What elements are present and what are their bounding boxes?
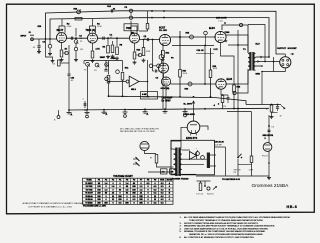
junction feedback takeoff: [268, 56, 270, 58]
svg-text:HB-6: HB-6: [287, 205, 298, 209]
svg-text:6.3: 6.3: [272, 127, 275, 129]
svg-text:V6 EL84: V6 EL84: [85, 198, 93, 201]
ground cathode branch: [52, 59, 54, 61]
enclosure box power supply: [171, 140, 215, 175]
svg-text:TO HEATERS 6.3V: TO HEATERS 6.3V: [222, 178, 241, 181]
tube V4b middle triode: [159, 63, 169, 73]
svg-text:6CG7(B): 6CG7(B): [161, 88, 170, 90]
capacitor C20 can on B+ wire: [239, 23, 242, 26]
arrow tap 1: [261, 56, 263, 58]
ground pilot: [268, 176, 270, 178]
wire bias branch: [197, 180, 211, 182]
wire R18 to bus: [233, 92, 235, 109]
svg-text:EZ81 5Y3: EZ81 5Y3: [186, 137, 198, 140]
resistor R14 cathode V4: [162, 44, 164, 50]
junction lower drive: [204, 83, 206, 85]
svg-text:SOCKET: SOCKET: [288, 48, 298, 50]
tube V6 6BQ5 lower: [216, 79, 226, 89]
svg-text:0: 0: [147, 186, 148, 188]
svg-text:P3: P3: [112, 180, 114, 182]
svg-text:B+ 360V: B+ 360V: [184, 104, 193, 106]
filter capacitor C20b: [201, 156, 205, 160]
arrow tap 2: [258, 61, 260, 63]
svg-text:ALL CONTROLS AT MINIMUM, PROPE: ALL CONTROLS AT MINIMUM, PROPER OUTPUT L…: [184, 236, 255, 239]
svg-text:OUTPUT: OUTPUT: [277, 48, 287, 50]
svg-text:1.6: 1.6: [112, 186, 115, 188]
fuse F1: [155, 155, 158, 164]
svg-text:BRN: BRN: [256, 74, 261, 76]
svg-text:6EU7: 6EU7: [57, 28, 64, 32]
svg-text:0: 0: [126, 199, 127, 201]
svg-text:0: 0: [147, 189, 148, 191]
svg-text:PILOT: PILOT: [262, 156, 269, 158]
ground R1: [49, 52, 51, 54]
svg-text:100K: 100K: [213, 68, 218, 70]
svg-text:MEASURED VALUES ARE FROM SOCKE: MEASURED VALUES ARE FROM SOCKET TERMINAL…: [184, 225, 275, 228]
svg-text:SEE NOTE: SEE NOTE: [216, 18, 227, 20]
junction nested tap: [264, 61, 266, 63]
resistor R26 on feedback wire: [75, 17, 82, 20]
svg-text:6.3: 6.3: [154, 202, 157, 204]
svg-text:0: 0: [147, 202, 148, 204]
resistor R16 grid stop lower: [188, 82, 192, 86]
svg-text:6.3: 6.3: [161, 183, 164, 185]
wire rectifier plate feed: [181, 127, 187, 148]
svg-text:6.3: 6.3: [154, 193, 157, 195]
arrow socket aux: [291, 53, 294, 55]
svg-text:V5 EL84: V5 EL84: [85, 195, 93, 198]
tube V4 6C4 upper: [159, 34, 170, 45]
wire V4b cathode: [165, 86, 167, 109]
wire AC plug to fuse: [145, 151, 157, 154]
ground volume pot: [75, 58, 77, 60]
output transformer T2 secondary: [253, 54, 255, 58]
svg-text:A RADIOCRAFT STANDARD NOTATION: A RADIOCRAFT STANDARD NOTATION SCHEMATIC…: [23, 202, 84, 205]
wire screen V5: [237, 30, 239, 45]
svg-text:REPLACE 8MF SECTION OF C20 FIR: REPLACE 8MF SECTION OF C20 FIRST.: [120, 130, 156, 133]
resistor R12 cathode V3: [134, 43, 136, 52]
svg-text:V2 7025: V2 7025: [86, 186, 93, 188]
junction top wires: [151, 10, 153, 12]
svg-text:6.3: 6.3: [161, 193, 164, 195]
pot P2 bass: [86, 62, 90, 66]
svg-text:0: 0: [126, 196, 127, 198]
wire grid drop to lower triode: [152, 40, 154, 72]
wire socket ground return: [262, 68, 285, 105]
resistor R19 cathode: [221, 95, 224, 103]
wire screen drop: [179, 37, 181, 46]
svg-text:A: A: [71, 114, 73, 117]
svg-text:P9: P9: [154, 180, 156, 182]
wire lamp column: [147, 60, 149, 96]
wire network top rail: [246, 104, 281, 106]
resistor R17 plate load upper: [179, 31, 181, 70]
svg-text:0: 0: [119, 183, 120, 185]
svg-text:2.7K: 2.7K: [96, 49, 101, 51]
svg-text:310: 310: [118, 196, 121, 198]
junction ground bus: [164, 108, 166, 110]
ground V3 cathode: [134, 61, 136, 63]
svg-text:P6: P6: [133, 180, 135, 182]
svg-text:POWER TRANS: POWER TRANS: [172, 178, 189, 181]
svg-text:330: 330: [97, 196, 100, 198]
junction ground bus: [233, 108, 235, 110]
capacitor C6 tone: [105, 61, 107, 70]
svg-text:22: 22: [112, 193, 114, 195]
capacitor C13 left column: [68, 45, 70, 110]
capacitor C16 pilot: [268, 129, 271, 131]
svg-text:6.3: 6.3: [154, 189, 157, 191]
svg-text:0: 0: [105, 186, 106, 188]
svg-text:6.3: 6.3: [119, 202, 122, 204]
label V3 7025 boxed: [124, 24, 138, 31]
wire grid link lower: [196, 53, 214, 55]
pot P6 balance: [159, 55, 164, 60]
capacitor C3 coupling: [70, 37, 72, 40]
capacitor C23 splitter: [157, 64, 161, 68]
pilot lamp PL1: [263, 143, 272, 152]
svg-text:6.3: 6.3: [133, 196, 136, 198]
wire V4b plate to lower output grid: [171, 83, 217, 85]
svg-text:6.3: 6.3: [161, 199, 164, 201]
wire supply rail right: [215, 146, 226, 148]
wire nested tap: [248, 25, 265, 62]
wire cathode branch: [46, 39, 53, 59]
wire choke connections: [204, 158, 207, 160]
pot P8 tone lower: [105, 77, 109, 81]
ground V2 cathode: [92, 59, 94, 61]
svg-text:C20 40-40: C20 40-40: [214, 141, 225, 144]
svg-text:0: 0: [147, 199, 148, 201]
wire V5 cathode: [221, 43, 235, 85]
svg-text:170: 170: [97, 186, 100, 188]
wire input to V1 grid: [33, 38, 57, 40]
svg-text:270: 270: [223, 106, 226, 108]
capacitor C1 input: [38, 39, 40, 45]
svg-text:0: 0: [154, 183, 155, 185]
wire fuse to transformer: [157, 163, 172, 167]
wire socket top stub: [284, 54, 286, 57]
junction ground bus: [68, 109, 70, 111]
svg-text:EL84: EL84: [209, 27, 215, 30]
junction bias: [204, 185, 206, 187]
input jack J1: [30, 34, 34, 36]
ground network: [271, 115, 273, 117]
svg-text:TUBE SOCKET TERMINALS TO CHASS: TUBE SOCKET TERMINALS TO CHASSIS BASE AN…: [189, 219, 263, 222]
svg-text:0: 0: [105, 196, 106, 198]
ground bus stub 6: [164, 109, 166, 111]
ground bus stub 2: [86, 110, 88, 113]
junction ground bus: [86, 109, 88, 111]
wire V3 plate stubs: [130, 21, 132, 35]
svg-text:0: 0: [112, 189, 113, 191]
svg-text:25MF: 25MF: [100, 57, 106, 59]
svg-text:7189: 7189: [225, 32, 231, 34]
wire primary bottom return: [237, 71, 249, 94]
wire network to ground: [271, 112, 273, 115]
tube V1 6EU7: [57, 33, 67, 43]
wire HV secondary bottom: [182, 173, 196, 175]
svg-text:ALL VOLTAGE MEASUREMENTS ARE A: ALL VOLTAGE MEASUREMENTS ARE AT DC-20,00…: [184, 216, 290, 219]
wire pilot to heater run: [268, 152, 270, 177]
svg-text:350: 350: [104, 202, 107, 204]
capacitor C2 cathode bypass: [65, 51, 68, 54]
svg-text:0: 0: [147, 193, 148, 195]
svg-text:0: 0: [147, 196, 148, 198]
junction B+ riser: [193, 96, 195, 98]
wire HV secondary top: [182, 149, 190, 151]
svg-text:0: 0: [105, 199, 106, 201]
arrow bias adjust: [213, 187, 217, 190]
wire V2 to V3 coupling: [98, 37, 130, 39]
wire heater run: [196, 175, 269, 177]
wire secondary low tap: [256, 65, 263, 67]
capacitor C10 screen: [205, 29, 207, 46]
resistor R21 network: [270, 105, 273, 112]
wire V4 plate: [171, 36, 217, 38]
tube V4c lower triode: [161, 77, 170, 86]
svg-text:16: 16: [280, 116, 282, 118]
svg-text:NO C BIAS CELL USED. IF HUM DE: NO C BIAS CELL USED. IF HUM DEVELOPS: [120, 127, 160, 130]
choke L2: [207, 153, 210, 169]
wire feedback loop inner: [50, 18, 269, 57]
ground V1 cathode: [61, 58, 63, 60]
svg-text:6CG7: 6CG7: [159, 26, 166, 29]
tube V7 rectifier EZ81: [187, 121, 200, 134]
svg-text:V7 EZ81: V7 EZ81: [85, 202, 92, 204]
svg-text:6.3: 6.3: [161, 196, 164, 198]
capacitor C19 on return: [233, 91, 236, 94]
svg-text:1.2: 1.2: [140, 186, 143, 188]
power transformer T1 secondary: [179, 149, 182, 154]
svg-text:SOCKET CONNECTIONS ARE SHOWN A: SOCKET CONNECTIONS ARE SHOWN AS BOTTOM V…: [184, 222, 259, 225]
table voltage chart: [83, 178, 174, 204]
wire V6 plate to output transformer: [226, 69, 248, 84]
svg-text:PH. INV: PH. INV: [159, 30, 167, 32]
svg-text:0: 0: [119, 186, 120, 188]
wire V4 tail: [162, 61, 164, 109]
wire stub to R3: [61, 62, 70, 64]
capacitor C12 network: [276, 106, 279, 108]
svg-text:1M: 1M: [80, 49, 83, 51]
svg-text:BLU: BLU: [256, 44, 261, 46]
junction ground bus: [144, 108, 146, 110]
svg-text:NE-1: NE-1: [131, 89, 137, 91]
wire B+ rail: [109, 96, 246, 104]
svg-text:4 MF: 4 MF: [142, 93, 147, 96]
wire heater winding: [182, 163, 204, 165]
resistor R23 bias: [199, 183, 202, 191]
ground input: [38, 50, 40, 52]
svg-text:INPUT: INPUT: [21, 36, 28, 38]
svg-text:470K: 470K: [146, 51, 151, 53]
tube V5 6BQ5 upper: [215, 31, 226, 42]
svg-text:0: 0: [119, 193, 120, 195]
svg-text:R24 1K: R24 1K: [207, 194, 214, 196]
svg-text:VARIATION OF +/- 15% IN VOLTAG: VARIATION OF +/- 15% IN VOLTAGE AND RESI…: [189, 233, 263, 236]
svg-text:NOTE: NOTE: [167, 180, 173, 182]
junction after C8: [152, 39, 154, 41]
junction coupling node: [107, 37, 109, 39]
filter capacitor C20a: [196, 152, 200, 156]
svg-text:310: 310: [118, 199, 121, 201]
pot P7 tone upper: [105, 63, 109, 67]
junction ground bus: [204, 108, 206, 110]
svg-text:COPYRIGHT M. N. BEITMAN & CO.,: COPYRIGHT M. N. BEITMAN & CO., ILL. 1956: [28, 205, 73, 208]
svg-text:6.3: 6.3: [161, 202, 164, 204]
svg-text:210: 210: [97, 193, 100, 195]
wire B+ riser: [193, 102, 195, 121]
svg-text:B+ 350V: B+ 350V: [162, 100, 171, 102]
svg-text:V3 7025: V3 7025: [86, 189, 93, 191]
AC plug P1: [140, 141, 149, 150]
resistor R13 grid return: [143, 39, 145, 41]
svg-text:Grommes 215BA: Grommes 215BA: [252, 183, 290, 189]
resistor R7 divider: [112, 41, 114, 44]
svg-text:LINE VOLTAGE MAINTAINED AT 117: LINE VOLTAGE MAINTAINED AT 117 VOLTS FOR…: [184, 227, 269, 230]
wire pot P2 to bus: [87, 66, 89, 110]
svg-text:470K: 470K: [111, 57, 116, 60]
capacitor C4 coupling: [102, 37, 104, 40]
output transformer T2 core: [249, 52, 251, 71]
svg-text:0: 0: [133, 202, 134, 204]
wire driver column: [204, 46, 206, 85]
power transformer T1 primary: [174, 149, 177, 154]
svg-text:92: 92: [126, 193, 128, 195]
svg-text:6.3: 6.3: [147, 183, 150, 185]
wire switch column: [237, 45, 239, 157]
capacitor C15 below bus: [58, 66, 60, 69]
wire secondary mid tap to socket: [256, 61, 281, 63]
pot P4 on feedback wire: [77, 10, 81, 14]
junction pilot tap: [268, 125, 270, 127]
wire secondary to feedback tap: [256, 56, 270, 58]
pot P5 hum balance on top wires: [129, 9, 132, 12]
switch SW1: [237, 157, 239, 159]
ground bus stub 3: [103, 110, 105, 113]
tube V3 7025: [130, 33, 140, 43]
svg-text:350: 350: [97, 202, 100, 204]
svg-text:80: 80: [133, 183, 135, 185]
junction input node: [45, 38, 47, 40]
fuse holder F2: [250, 156, 253, 163]
junction ground bus: [124, 109, 126, 111]
wire AC return: [140, 163, 145, 165]
svg-text:6.3: 6.3: [161, 186, 164, 188]
svg-text:6.3: 6.3: [154, 186, 157, 188]
arrow network tap: [281, 106, 285, 109]
svg-text:0: 0: [112, 183, 113, 185]
wire feedback loop outer: [46, 11, 286, 54]
svg-text:0: 0: [140, 183, 141, 185]
rectifier SE1 triangle: [190, 152, 197, 160]
svg-text:150V DC: 150V DC: [142, 97, 151, 99]
wire splitter link: [163, 73, 165, 77]
svg-text:220K: 220K: [67, 26, 72, 28]
wire switch link: [238, 164, 252, 166]
svg-text:6.3: 6.3: [133, 199, 136, 201]
svg-text:A: A: [106, 113, 108, 116]
output transformer T2 primary: [248, 54, 250, 58]
ground bus stub A5: [144, 109, 146, 112]
resistor R15 grid stop upper: [190, 35, 194, 39]
wire rail to switch column: [225, 147, 227, 176]
wire second bus segment: [227, 111, 252, 113]
svg-text:(B): (B): [131, 32, 134, 34]
svg-text:220K: 220K: [97, 26, 102, 28]
wire tone branch: [84, 60, 123, 62]
capacitor C8 coupling: [146, 38, 148, 41]
resistor R27 dropper: [147, 11, 149, 24]
label 4MF boxed: [141, 92, 158, 100]
capacitor C5 on bus: [84, 101, 86, 108]
wire V3 to phase inverter: [140, 39, 160, 41]
resistor R2 cathode V1: [61, 43, 63, 50]
resistor R1 grid leak: [49, 39, 51, 44]
svg-text:C10 .05: C10 .05: [197, 50, 205, 52]
pot P1 volume: [75, 28, 77, 37]
terminal strip box 1: [161, 169, 168, 174]
junction ground bus: [184, 108, 186, 110]
lamp NE1 indicator: [129, 76, 139, 87]
resistor R11 tone: [122, 61, 124, 72]
AC plug prongs: [136, 157, 140, 161]
svg-text:A: A: [147, 113, 149, 116]
junction ground bus: [103, 109, 105, 111]
svg-text:EL84: EL84: [227, 78, 233, 81]
wire tap riser: [273, 57, 275, 72]
resistor R20 plate load lower: [210, 48, 212, 70]
svg-text:TUBE: TUBE: [86, 180, 92, 182]
svg-text:90: 90: [119, 189, 121, 191]
wire V1 to volume control: [67, 37, 88, 39]
ground bus stub A1: [68, 110, 70, 113]
output socket J2: [280, 57, 291, 68]
junction feedback tap: [224, 22, 226, 24]
ground bus stub 7: [184, 109, 186, 112]
svg-text:HTR: HTR: [160, 180, 165, 182]
wire lamp right: [139, 81, 148, 83]
resistor R10 tone: [108, 61, 110, 75]
tube V2 7025: [88, 33, 98, 43]
wire grid stub upper output tube: [228, 44, 248, 46]
svg-text:6.3: 6.3: [161, 189, 164, 191]
wire lamp left: [109, 81, 127, 83]
capacitor C14 on top wire: [110, 9, 112, 12]
ground bus stub 4: [124, 110, 126, 113]
wire V5 plate to output transformer: [226, 35, 248, 53]
power transformer T1 core: [175, 148, 177, 177]
wire pilot column: [268, 115, 270, 143]
svg-text:NOMINAL TOLERANCE ON COMPONENT: NOMINAL TOLERANCE ON COMPONENT VALUES MA…: [184, 230, 266, 233]
svg-text:VOLTAGE CHART: VOLTAGE CHART: [113, 175, 133, 178]
svg-text:7025 (A): 7025 (A): [86, 29, 96, 32]
capacitor C6b mid: [116, 70, 120, 74]
svg-text:C17 .05: C17 .05: [196, 194, 204, 196]
svg-text:20-8 MF: 20-8 MF: [214, 144, 222, 146]
svg-text:VOLTAGES ARE +/- 10%: VOLTAGES ARE +/- 10%: [83, 205, 106, 208]
svg-text:P7: P7: [140, 180, 142, 182]
pot P3 treble: [95, 63, 99, 67]
svg-text:V4 6CG7: V4 6CG7: [85, 192, 93, 195]
capacitor C18 bias: [207, 187, 210, 190]
wire fuse column: [251, 112, 253, 156]
svg-text:0: 0: [112, 202, 113, 204]
svg-text:117V: 117V: [249, 170, 254, 172]
wire V2 plate stubs: [90, 26, 96, 33]
wire ground bus: [69, 108, 269, 110]
svg-text:V1 6EU7: V1 6EU7: [85, 183, 92, 185]
